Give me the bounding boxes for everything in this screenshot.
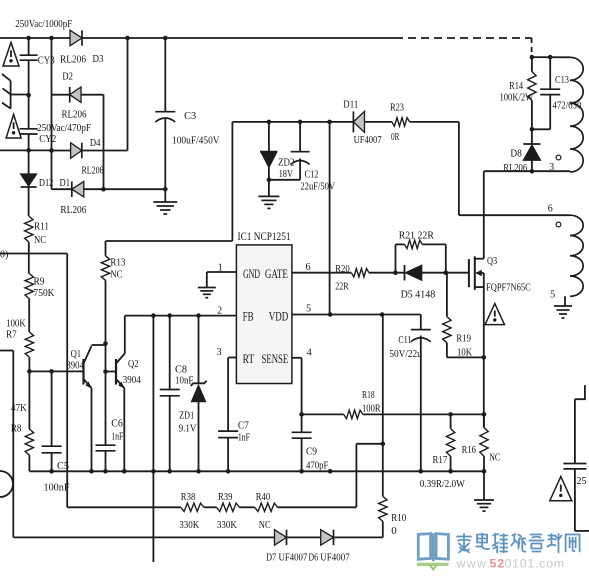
svg-text:UF4007: UF4007	[279, 552, 308, 564]
svg-text:UF4007: UF4007	[320, 552, 350, 564]
svg-text:C11: C11	[398, 334, 411, 346]
svg-text:R17: R17	[433, 454, 448, 466]
svg-text:0): 0)	[0, 250, 8, 261]
svg-text:NC: NC	[34, 234, 46, 246]
svg-text:R39: R39	[218, 491, 233, 503]
svg-text:IC1 NCP1251: IC1 NCP1251	[238, 229, 291, 243]
svg-text:R21 22R: R21 22R	[399, 230, 435, 242]
svg-text:C9: C9	[306, 446, 317, 458]
svg-text:R9: R9	[34, 276, 45, 288]
svg-text:D3: D3	[93, 53, 104, 65]
svg-text:0: 0	[391, 525, 397, 537]
svg-text:100uF/450V: 100uF/450V	[172, 135, 220, 147]
svg-text:47K: 47K	[11, 402, 27, 414]
svg-text:D7: D7	[266, 552, 276, 564]
svg-text:RL206: RL206	[62, 108, 87, 120]
svg-text:9.1V: 9.1V	[179, 423, 197, 435]
svg-text:3904: 3904	[123, 374, 141, 386]
svg-text:330K: 330K	[179, 519, 199, 531]
svg-text:0101.com: 0101.com	[505, 557, 565, 571]
svg-text:RL206: RL206	[503, 162, 527, 174]
svg-text:R10: R10	[391, 512, 406, 524]
svg-text:RL206: RL206	[60, 204, 86, 216]
svg-text:6: 6	[306, 262, 311, 273]
svg-text:NC: NC	[259, 519, 271, 531]
svg-text:Q2: Q2	[128, 358, 139, 370]
svg-text:D5 4148: D5 4148	[401, 289, 436, 301]
svg-text:R11: R11	[34, 221, 49, 233]
svg-text:0.39R/2.0W: 0.39R/2.0W	[420, 478, 466, 490]
svg-text:D6: D6	[309, 552, 319, 564]
svg-text:5: 5	[550, 290, 555, 301]
svg-text:100K: 100K	[6, 318, 26, 330]
svg-text:R20: R20	[335, 263, 350, 275]
svg-text:5: 5	[306, 304, 311, 315]
svg-text:R18: R18	[362, 389, 375, 401]
svg-text:R23: R23	[390, 102, 404, 114]
svg-text:NC: NC	[110, 269, 122, 281]
svg-text:ZD2: ZD2	[278, 156, 294, 168]
svg-text:C7: C7	[238, 420, 249, 432]
svg-text:C3: C3	[184, 110, 196, 122]
svg-text:1: 1	[218, 263, 223, 274]
svg-text:50V/22u: 50V/22u	[389, 348, 422, 360]
svg-text:Q1: Q1	[71, 348, 82, 360]
svg-text:D4: D4	[90, 137, 101, 149]
svg-text:R13: R13	[110, 256, 125, 268]
svg-text:3904: 3904	[66, 360, 84, 372]
svg-text:1nF: 1nF	[111, 431, 123, 443]
svg-text:UF4007: UF4007	[354, 134, 382, 146]
svg-text:750K: 750K	[34, 287, 55, 299]
svg-text:3: 3	[217, 347, 222, 358]
svg-text:C12: C12	[305, 169, 319, 181]
svg-text:1nF: 1nF	[238, 432, 250, 444]
svg-text:C6: C6	[111, 417, 123, 429]
svg-text:GATE: GATE	[265, 266, 288, 281]
svg-text:D2: D2	[62, 71, 73, 83]
svg-text:D1: D1	[60, 177, 71, 189]
svg-text:25: 25	[577, 476, 587, 487]
svg-text:RT: RT	[243, 351, 255, 366]
svg-text:RL206: RL206	[82, 165, 104, 177]
svg-text:4: 4	[307, 347, 312, 358]
svg-text:FB: FB	[243, 309, 254, 324]
svg-text:R7: R7	[6, 329, 17, 341]
svg-text:100K/2W: 100K/2W	[500, 91, 534, 103]
svg-text:22R: 22R	[335, 281, 349, 293]
svg-text:250Vac/1000pF: 250Vac/1000pF	[15, 18, 72, 30]
svg-text:R14: R14	[509, 80, 523, 92]
svg-text:100R: 100R	[362, 402, 381, 414]
svg-text:FQPF7N65C: FQPF7N65C	[486, 283, 531, 294]
svg-text:C13: C13	[555, 74, 569, 86]
svg-text:D12: D12	[39, 177, 54, 189]
svg-text:470pF: 470pF	[306, 460, 328, 472]
svg-text:0R: 0R	[391, 131, 400, 143]
svg-text:R19: R19	[456, 333, 471, 345]
svg-text:R8: R8	[11, 423, 22, 435]
svg-text:330K: 330K	[217, 519, 237, 531]
svg-text:GND: GND	[243, 266, 260, 281]
svg-text:100nF: 100nF	[44, 481, 70, 493]
svg-text:D11: D11	[343, 99, 358, 111]
svg-text:472/630: 472/630	[552, 99, 581, 111]
svg-text:R40: R40	[256, 491, 271, 503]
svg-text:3: 3	[549, 162, 554, 173]
svg-text:CY2: CY2	[39, 133, 56, 145]
svg-text:52: 52	[490, 557, 506, 571]
svg-text:R38: R38	[181, 491, 196, 503]
svg-text:22uF/50V: 22uF/50V	[300, 180, 335, 192]
svg-text:ZD1: ZD1	[179, 409, 194, 421]
svg-text:6: 6	[548, 204, 553, 215]
svg-text:18V: 18V	[279, 168, 294, 180]
svg-text:R16: R16	[462, 444, 477, 456]
svg-text:D8: D8	[510, 148, 522, 160]
svg-text:Q3: Q3	[487, 255, 498, 267]
svg-text:NC: NC	[489, 452, 500, 464]
svg-text:SENSE: SENSE	[262, 351, 289, 366]
svg-text:CY3: CY3	[38, 55, 55, 67]
svg-text:VDD: VDD	[269, 309, 289, 324]
svg-text:C5: C5	[57, 460, 69, 472]
svg-text:www.: www.	[456, 557, 492, 571]
svg-text:10K: 10K	[457, 346, 472, 358]
svg-text:10nF: 10nF	[175, 375, 193, 387]
svg-text:2: 2	[217, 306, 222, 317]
svg-text:RL206: RL206	[60, 54, 86, 66]
